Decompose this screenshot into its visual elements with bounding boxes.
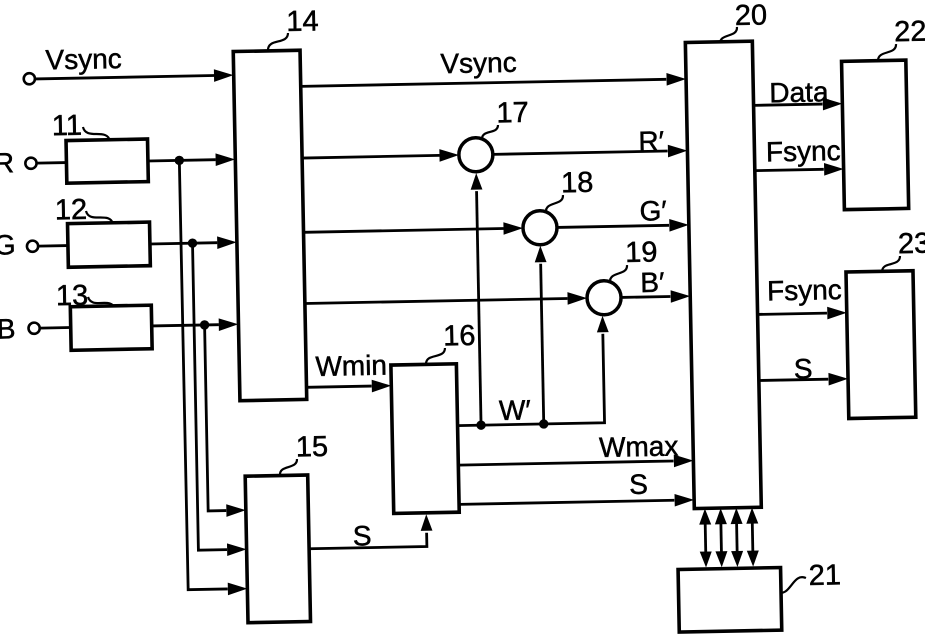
wire B tap down to block 15 (205, 325, 227, 511)
svg-text:S: S (353, 520, 372, 551)
block 20 (685, 41, 761, 508)
leader 16 (426, 348, 446, 364)
junction dot W' riser 18 (539, 419, 549, 429)
svg-text:18: 18 (561, 167, 594, 200)
leader 23 (882, 256, 901, 272)
svg-text:S: S (629, 469, 648, 500)
wire R from block 11 to block 14 (148, 160, 216, 161)
svg-text:W′: W′ (499, 394, 531, 426)
leader 12 (86, 210, 113, 224)
svg-text:Wmin: Wmin (315, 350, 387, 382)
svg-text:Vsync: Vsync (45, 43, 122, 75)
input terminal R (25, 158, 36, 169)
leader 22 (878, 44, 897, 61)
block 22 (842, 60, 909, 210)
svg-text:21: 21 (808, 559, 841, 592)
leader 18 (546, 195, 564, 212)
leader 14 (268, 33, 289, 50)
wire Wmin block 14 to block 16 (307, 386, 372, 387)
junction dot G (188, 238, 198, 248)
wire R to block 11 (37, 161, 67, 164)
wire Fsync block 20 to block 22 (755, 169, 824, 170)
block 15 (245, 475, 310, 623)
adder circle 17 (459, 137, 494, 172)
leader 19 (610, 265, 628, 282)
svg-text:22: 22 (894, 16, 925, 49)
bus arrow 3 block 20 to block 21 (735, 522, 738, 553)
riser to adder 17 (477, 191, 481, 425)
wire B' adder 19 to block 20 (621, 295, 670, 299)
bus arrow 1 block 20 to block 21 (704, 522, 707, 553)
block 16 (391, 364, 459, 514)
leader 20 (720, 27, 738, 44)
wire G' adder 18 to block 20 (557, 225, 669, 227)
block 11 (66, 139, 148, 183)
bus arrow 4 block 20 to block 21 (751, 521, 754, 552)
leader 17 (482, 125, 499, 139)
block 14 (233, 50, 306, 400)
wire G to block 12 (38, 244, 68, 247)
svg-text:16: 16 (443, 320, 476, 353)
junction dot R (175, 156, 185, 166)
leader 21 (777, 577, 806, 593)
block 12 (68, 222, 151, 267)
wire Data block 20 to block 22 (754, 104, 823, 105)
wire W' from block 16 with risers to adders (456, 334, 605, 426)
wire Wmax block 16 to block 20 (458, 461, 673, 465)
svg-text:19: 19 (625, 236, 658, 269)
leader 15 (280, 459, 298, 475)
wire Vsync input (35, 76, 214, 79)
wire S block 16 to block 20 (459, 500, 674, 504)
riser to adder 18 (541, 264, 544, 424)
svg-text:Fsync: Fsync (767, 274, 842, 306)
wire G from block 12 to block 14 (150, 243, 217, 244)
leader 13 (88, 296, 115, 309)
wire S from block 15 to block 16 (309, 533, 427, 549)
svg-text:B: B (0, 313, 16, 344)
junction dot W' riser 17 (476, 420, 486, 430)
adder circle 18 (523, 210, 558, 245)
svg-text:11: 11 (52, 110, 83, 143)
wire S block 20 to block 23 (759, 379, 828, 380)
wire G tap down to block 15 (193, 243, 227, 551)
block 21 (678, 568, 782, 633)
svg-text:G: G (0, 229, 16, 260)
svg-text:14: 14 (286, 5, 319, 38)
input terminal G (27, 241, 38, 252)
svg-text:15: 15 (296, 431, 329, 464)
input terminal Vsync (24, 73, 35, 84)
wire Vsync block 14 to block 20 (301, 79, 667, 86)
wire G block 14 to adder 18 (304, 228, 504, 232)
block 13 (70, 305, 152, 350)
adder circle 19 (587, 280, 622, 315)
bus arrow 2 block 20 to block 21 (719, 522, 722, 553)
input terminal B (28, 323, 39, 334)
block 23 (846, 271, 916, 419)
svg-text:Fsync: Fsync (766, 135, 841, 167)
svg-text:R′: R′ (638, 125, 664, 156)
svg-text:G′: G′ (639, 195, 667, 227)
svg-text:23: 23 (898, 228, 925, 261)
svg-text:R: R (0, 147, 14, 178)
leader 11 (83, 127, 110, 142)
wire B block 14 to adder 19 (305, 298, 568, 303)
svg-text:17: 17 (496, 97, 529, 130)
svg-text:B′: B′ (640, 267, 665, 298)
junction dot B (200, 320, 210, 330)
wire B from block 13 to block 14 (152, 325, 219, 326)
svg-text:Vsync: Vsync (440, 47, 517, 79)
wire Fsync block 20 to block 23 (758, 313, 827, 314)
wire B to block 13 (40, 326, 71, 329)
svg-text:Wmax: Wmax (599, 430, 679, 463)
wire R tap down to block 15 (179, 160, 227, 590)
wire R block 14 to adder 17 (302, 155, 439, 158)
svg-text:20: 20 (735, 0, 768, 32)
wire R' adder 17 to block 20 (493, 151, 668, 154)
